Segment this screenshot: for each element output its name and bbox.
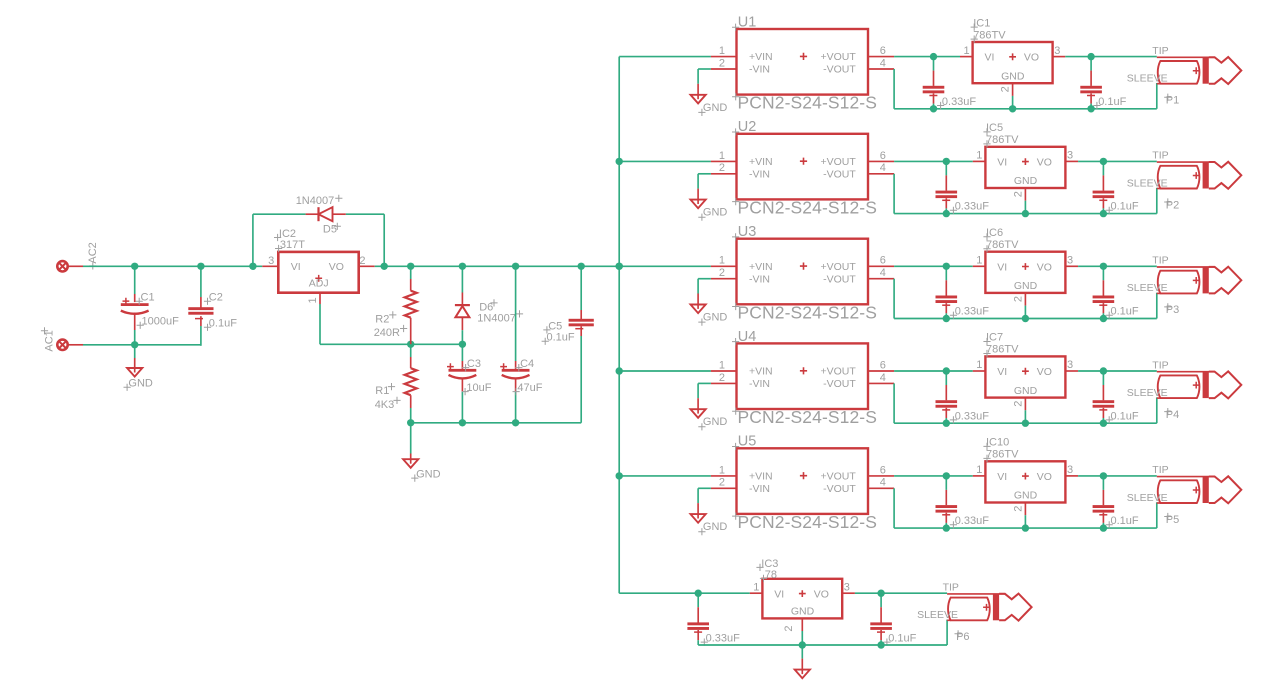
connector P6 insulator bar bbox=[993, 594, 999, 621]
svg-text:GND: GND bbox=[791, 605, 815, 617]
connector P6 SLEEVE label bbox=[917, 609, 958, 621]
junction 0.33uF bottom of U3 stage bbox=[943, 315, 950, 322]
svg-text:786TV: 786TV bbox=[973, 29, 1006, 41]
svg-text:TIP: TIP bbox=[1152, 150, 1168, 162]
IC10 pin 1 VI bbox=[973, 464, 1007, 483]
wire ground rail of IC3 stage bbox=[698, 644, 947, 646]
wire U1 -VOUT down to local rail bbox=[893, 69, 895, 109]
U2 internal plus marker bbox=[800, 158, 807, 165]
junction 0.1uF bottom of IC3 stage bbox=[877, 641, 884, 648]
capacitor 0.33uF of U2 stage bbox=[936, 161, 958, 213]
label 1N4007 of D6 bbox=[477, 310, 523, 324]
svg-text:GND: GND bbox=[703, 102, 728, 114]
junction bus to U3 bbox=[616, 263, 623, 270]
svg-text:GND: GND bbox=[703, 207, 728, 219]
ground symbol at U4 bbox=[691, 409, 706, 418]
svg-text:1: 1 bbox=[719, 359, 725, 371]
junction at C1 top bbox=[131, 263, 138, 270]
IC5 pin 3 line bbox=[1065, 150, 1078, 162]
svg-text:VI: VI bbox=[291, 261, 301, 273]
svg-text:U2: U2 bbox=[738, 119, 757, 135]
IC5 pin 2 to rail bbox=[1012, 188, 1025, 214]
wire D5 bypass loop bbox=[253, 214, 384, 266]
capacitor 0.33uF of U3 stage bbox=[936, 266, 958, 318]
capacitor 0.1uF of U3 stage bbox=[1093, 266, 1115, 318]
svg-text:VI: VI bbox=[997, 261, 1007, 273]
IC3 internal plus marker bbox=[799, 590, 806, 597]
svg-text:GND: GND bbox=[1014, 385, 1038, 397]
U2 pin 6 +VOUT bbox=[820, 150, 894, 168]
svg-text:U4: U4 bbox=[738, 329, 757, 345]
label 0.1uF of U5 stage bbox=[1106, 515, 1139, 528]
wire sleeve of P1 down to rail bbox=[1156, 83, 1158, 109]
label IC2 bbox=[274, 228, 296, 241]
connector P4 name label bbox=[1164, 408, 1179, 421]
svg-text:VI: VI bbox=[985, 52, 995, 64]
svg-text:1N4007: 1N4007 bbox=[477, 312, 516, 324]
junction +12V at 0.1uF of U5 stage bbox=[1100, 472, 1107, 479]
connector P4 SLEEVE label bbox=[1127, 387, 1168, 399]
label 240R bbox=[374, 325, 408, 339]
U1 pin 4 -VOUT bbox=[823, 57, 894, 75]
IC5 internal plus marker bbox=[1022, 158, 1029, 165]
label IC7 bbox=[983, 332, 1003, 345]
svg-text:2: 2 bbox=[359, 255, 365, 267]
svg-text:0.1uF: 0.1uF bbox=[547, 332, 575, 344]
connector P5 TIP label bbox=[1152, 464, 1168, 476]
wire AC2 net main rail left bbox=[83, 265, 262, 267]
svg-text:786TV: 786TV bbox=[986, 239, 1019, 251]
svg-text:+VOUT: +VOUT bbox=[820, 366, 856, 378]
junction 0.1uF bottom of U4 stage bbox=[1100, 420, 1107, 427]
U5 pin 6 +VOUT bbox=[820, 464, 894, 482]
IC7 pin 3 line bbox=[1065, 359, 1078, 371]
wire sleeve of P2 down to rail bbox=[1156, 188, 1158, 214]
junction 0.1uF bottom of U2 stage bbox=[1100, 210, 1107, 217]
voltage regulator IC2 box bbox=[278, 252, 358, 293]
voltage regulator IC10 box bbox=[985, 461, 1065, 502]
svg-text:SLEEVE: SLEEVE bbox=[1127, 387, 1168, 399]
IC5 VO pin name bbox=[1037, 156, 1052, 168]
connector P2 plug tip bbox=[1209, 162, 1242, 189]
dc-dc converter U4 box bbox=[737, 343, 869, 409]
svg-text:P6: P6 bbox=[956, 631, 969, 643]
connector P3 TIP label bbox=[1152, 255, 1168, 267]
svg-text:2: 2 bbox=[1012, 191, 1024, 197]
ground symbol at U1 bbox=[691, 95, 706, 104]
svg-text:D5: D5 bbox=[323, 223, 337, 235]
svg-text:GND: GND bbox=[416, 469, 441, 481]
label GND at U1 bbox=[698, 102, 727, 116]
U5 internal plus marker bbox=[800, 472, 807, 479]
label IC3 bbox=[756, 558, 778, 571]
capacitor 0.1uF of U2 stage bbox=[1093, 161, 1115, 213]
svg-text:P2: P2 bbox=[1166, 199, 1179, 211]
capacitor 0.1uF of U4 stage bbox=[1093, 371, 1115, 423]
label PCN2-S24-S12-S of U5 bbox=[732, 512, 877, 532]
label D6 bbox=[479, 299, 497, 313]
label IC6 bbox=[983, 227, 1003, 240]
svg-text:TIP: TIP bbox=[1152, 255, 1168, 267]
connector P5 insulator bar bbox=[1203, 477, 1209, 504]
ground symbol below IC3 bbox=[795, 645, 810, 678]
svg-text:0.33uF: 0.33uF bbox=[955, 410, 990, 422]
svg-text:U3: U3 bbox=[738, 224, 757, 240]
svg-text:0.33uF: 0.33uF bbox=[706, 633, 741, 645]
junction at C2 top bbox=[197, 263, 204, 270]
IC2 pin 2 VO bbox=[329, 255, 375, 273]
U3 pin 2 -VIN bbox=[711, 267, 770, 285]
voltage regulator IC6 box bbox=[985, 252, 1065, 293]
connector P4 TIP label bbox=[1152, 359, 1168, 371]
svg-text:3: 3 bbox=[1067, 464, 1073, 476]
voltage regulator IC7 box bbox=[985, 356, 1065, 397]
capacitor 0.1uF of IC3 stage bbox=[870, 593, 892, 645]
U4 pin 6 +VOUT bbox=[820, 359, 894, 377]
ground symbol at U3 bbox=[691, 305, 706, 314]
wire U2 -VIN to ground bbox=[698, 174, 711, 204]
U1 pin 1 +VIN bbox=[711, 45, 773, 63]
IC1 internal plus marker bbox=[1009, 53, 1016, 60]
junction IC3 ground on rail bbox=[799, 641, 806, 648]
svg-text:2: 2 bbox=[1000, 86, 1012, 92]
connector P5 sleeve pin stub bbox=[1157, 502, 1161, 504]
svg-text:VI: VI bbox=[997, 471, 1007, 483]
svg-text:3: 3 bbox=[1067, 359, 1073, 371]
capacitor C2 0.1uF bbox=[188, 266, 213, 326]
connector P3 barrel bbox=[1158, 271, 1200, 294]
capacitor 0.33uF of U1 stage bbox=[923, 57, 945, 109]
IC3 GND pin name bbox=[791, 605, 815, 617]
svg-text:4: 4 bbox=[880, 162, 886, 174]
label 0.1uF of C5 bbox=[542, 332, 575, 345]
svg-text:P3: P3 bbox=[1166, 304, 1179, 316]
svg-text:GND: GND bbox=[703, 312, 728, 324]
wire U5 -VIN to ground bbox=[698, 488, 711, 518]
svg-text:317T: 317T bbox=[280, 239, 305, 251]
svg-text:2: 2 bbox=[1012, 401, 1024, 407]
junction IC6 ground on rail bbox=[1022, 315, 1029, 322]
voltage regulator IC5 box bbox=[985, 147, 1065, 188]
junction bus to U5 bbox=[616, 472, 623, 479]
junction 0.1uF bottom of U5 stage bbox=[1100, 524, 1107, 531]
junction 0.1uF bottom of U1 stage bbox=[1087, 105, 1094, 112]
svg-text:0.1uF: 0.1uF bbox=[1111, 410, 1139, 422]
label C2 bbox=[204, 292, 223, 305]
junction at R2 top bbox=[407, 263, 414, 270]
svg-text:TIP: TIP bbox=[1152, 45, 1168, 57]
svg-text:-VIN: -VIN bbox=[749, 483, 770, 495]
junction at D5 right bbox=[381, 263, 388, 270]
svg-text:TIP: TIP bbox=[1152, 464, 1168, 476]
U3 pin 6 +VOUT bbox=[820, 255, 894, 273]
label 0.1uF of IC3 stage bbox=[883, 633, 916, 646]
junction at C5 top bbox=[578, 263, 585, 270]
svg-text:PCN2-S24-S12-S: PCN2-S24-S12-S bbox=[738, 197, 878, 217]
junction +12V at 0.33uF of U4 stage bbox=[943, 367, 950, 374]
svg-text:P5: P5 bbox=[1166, 514, 1179, 526]
connector P6 TIP label bbox=[943, 582, 959, 594]
connector P6 sleeve pin stub bbox=[947, 619, 951, 621]
svg-text:VO: VO bbox=[1037, 366, 1052, 378]
svg-text:IC5: IC5 bbox=[986, 122, 1003, 134]
svg-text:0.33uF: 0.33uF bbox=[955, 201, 990, 213]
wire IC10 output to jack bbox=[1078, 475, 1157, 477]
IC5 GND pin name bbox=[1014, 175, 1038, 187]
capacitor 0.1uF of U5 stage bbox=[1093, 476, 1115, 528]
IC7 VO pin name bbox=[1037, 366, 1052, 378]
label 0.1uF of U1 stage bbox=[1093, 96, 1126, 109]
label IC5 bbox=[983, 122, 1003, 135]
wire U4 -VIN to ground bbox=[698, 383, 711, 413]
wire bus to U3 pin 1 bbox=[619, 265, 711, 267]
IC3 pin 3 line bbox=[842, 581, 855, 593]
svg-text:IC1: IC1 bbox=[973, 17, 990, 29]
U5 pin 1 +VIN bbox=[711, 464, 773, 482]
junction IC7 ground on rail bbox=[1022, 420, 1029, 427]
capacitor C3 10uF bbox=[447, 344, 476, 423]
label AC1 bbox=[41, 327, 56, 351]
wire U4 -VOUT down to local rail bbox=[893, 383, 895, 423]
wire ADJ rail bbox=[320, 304, 462, 344]
connector P3 name label bbox=[1164, 303, 1179, 316]
junction at C1 bottom bbox=[131, 341, 138, 348]
U4 pin 2 -VIN bbox=[711, 372, 770, 390]
svg-text:6: 6 bbox=[880, 464, 886, 476]
U3 internal plus marker bbox=[800, 263, 807, 270]
U2 pin 2 -VIN bbox=[711, 162, 770, 180]
svg-text:-VIN: -VIN bbox=[749, 168, 770, 180]
svg-text:C3: C3 bbox=[467, 358, 481, 370]
svg-text:R1: R1 bbox=[375, 385, 389, 397]
IC1 GND pin name bbox=[1001, 70, 1025, 82]
svg-text:2: 2 bbox=[719, 57, 725, 69]
wire local ground rail of U3 stage bbox=[894, 318, 1157, 320]
label AC2 bbox=[87, 242, 99, 269]
connector P1 plug tip bbox=[1209, 57, 1242, 84]
junction 0.33uF bottom of U2 stage bbox=[943, 210, 950, 217]
label C5 bbox=[543, 320, 562, 333]
label 0.1uF of U3 stage bbox=[1106, 306, 1139, 319]
connector P2 sleeve pin stub bbox=[1157, 188, 1161, 190]
connector P2 tip pin line bbox=[1157, 161, 1215, 163]
junction IC5 ground on rail bbox=[1022, 210, 1029, 217]
junction main rail to bus bbox=[616, 263, 623, 270]
svg-text:1: 1 bbox=[307, 297, 319, 303]
connector P4 barrel bbox=[1158, 375, 1200, 398]
svg-text:240R: 240R bbox=[374, 327, 400, 339]
svg-text:+VIN: +VIN bbox=[749, 156, 773, 168]
svg-text:VO: VO bbox=[814, 588, 829, 600]
label 0.33uF of U4 stage bbox=[950, 410, 989, 423]
dc-dc converter U2 box bbox=[737, 134, 869, 200]
IC2 pin 1 ADJ stub bbox=[307, 293, 320, 304]
svg-text:IC7: IC7 bbox=[986, 332, 1003, 344]
IC10 pin 2 to rail bbox=[1012, 503, 1025, 529]
svg-text:4K3: 4K3 bbox=[375, 399, 395, 411]
svg-text:+VOUT: +VOUT bbox=[820, 261, 856, 273]
svg-text:TIP: TIP bbox=[1152, 359, 1168, 371]
IC7 pin 1 VI bbox=[973, 359, 1007, 378]
svg-text:R2: R2 bbox=[375, 313, 389, 325]
label U3 bbox=[732, 224, 756, 240]
svg-text:3: 3 bbox=[1054, 45, 1060, 57]
terminal AC1 bbox=[57, 340, 67, 350]
label 786TV of IC7 bbox=[983, 344, 1019, 357]
capacitor 0.1uF of U1 stage bbox=[1080, 57, 1102, 109]
label 0.33uF of U5 stage bbox=[950, 515, 989, 528]
svg-text:VI: VI bbox=[997, 366, 1007, 378]
IC1 VO pin name bbox=[1024, 52, 1039, 64]
label 0.1uF of U2 stage bbox=[1106, 201, 1139, 214]
svg-text:+VIN: +VIN bbox=[749, 471, 773, 483]
label 317T bbox=[275, 239, 305, 252]
svg-text:PCN2-S24-S12-S: PCN2-S24-S12-S bbox=[738, 407, 878, 427]
svg-text:-VIN: -VIN bbox=[749, 378, 770, 390]
voltage regulator IC3 box bbox=[762, 579, 842, 619]
connector P4 sleeve pin stub bbox=[1157, 397, 1161, 399]
label GND at U5 bbox=[698, 521, 727, 535]
svg-text:-VOUT: -VOUT bbox=[823, 64, 856, 76]
svg-text:GND: GND bbox=[703, 521, 728, 533]
svg-text:2: 2 bbox=[719, 477, 725, 489]
wire sleeve of P4 down to rail bbox=[1156, 397, 1158, 423]
connector P3 insulator bar bbox=[1203, 267, 1209, 294]
junction ADJ-D6-C3 bbox=[459, 341, 466, 348]
junction bus to U2 bbox=[616, 158, 623, 165]
wire IC3 output to jack P6 bbox=[855, 592, 947, 594]
resistor R1 4K3 bbox=[405, 344, 417, 423]
junction +12V at 0.1uF of U1 stage bbox=[1087, 53, 1094, 60]
svg-text:P4: P4 bbox=[1166, 409, 1179, 421]
svg-text:-VOUT: -VOUT bbox=[823, 168, 856, 180]
label 10uF bbox=[462, 382, 492, 395]
svg-text:IC10: IC10 bbox=[986, 437, 1009, 449]
label R1 bbox=[375, 383, 395, 397]
svg-text:47uF: 47uF bbox=[517, 382, 542, 394]
connector P1 SLEEVE label bbox=[1127, 73, 1168, 85]
svg-text:VO: VO bbox=[1037, 471, 1052, 483]
IC3 pin 2 to rail bbox=[783, 618, 803, 645]
terminal AC2 pin stub bbox=[68, 265, 83, 267]
label GND below C1 bbox=[124, 378, 153, 391]
terminal AC2 bbox=[57, 261, 67, 271]
U3 pin 1 +VIN bbox=[711, 255, 773, 273]
label GND at U4 bbox=[698, 416, 727, 430]
label C4 bbox=[515, 358, 534, 371]
svg-text:SLEEVE: SLEEVE bbox=[1127, 282, 1168, 294]
svg-text:1: 1 bbox=[976, 150, 982, 162]
IC10 internal plus marker bbox=[1022, 473, 1029, 480]
U4 internal plus marker bbox=[800, 367, 807, 374]
wire U1 +VOUT to IC1 input bbox=[894, 56, 960, 58]
dc-dc converter U1 box bbox=[737, 29, 869, 95]
wire VO to bus bbox=[375, 265, 620, 267]
connector P1 name label bbox=[1164, 94, 1179, 107]
svg-text:1: 1 bbox=[753, 581, 759, 593]
svg-text:PCN2-S24-S12-S: PCN2-S24-S12-S bbox=[738, 512, 878, 532]
label 786TV of IC1 bbox=[971, 29, 1007, 42]
svg-text:TIP: TIP bbox=[943, 582, 959, 594]
label PCN2-S24-S12-S of U1 bbox=[732, 93, 877, 113]
dc-dc converter U3 box bbox=[737, 239, 869, 305]
connector P6 name label bbox=[955, 630, 970, 643]
label U5 bbox=[732, 434, 756, 450]
wire U3 -VIN to ground bbox=[698, 279, 711, 309]
svg-text:1: 1 bbox=[719, 255, 725, 267]
capacitor C5 0.1uF bbox=[569, 266, 594, 423]
svg-text:2: 2 bbox=[719, 372, 725, 384]
svg-text:GND: GND bbox=[1001, 70, 1025, 82]
connector P1 TIP label bbox=[1152, 45, 1168, 57]
svg-text:-VIN: -VIN bbox=[749, 64, 770, 76]
svg-text:786TV: 786TV bbox=[986, 134, 1019, 146]
wire U5 +VOUT to IC10 input bbox=[894, 475, 973, 477]
U4 pin 1 +VIN bbox=[711, 359, 773, 377]
connector P5 tip pin line bbox=[1157, 476, 1215, 478]
svg-text:1: 1 bbox=[976, 464, 982, 476]
IC10 pin 3 line bbox=[1065, 464, 1078, 476]
svg-text:0.1uF: 0.1uF bbox=[1111, 515, 1139, 527]
IC1 pin 3 line bbox=[1053, 45, 1066, 57]
wire local ground rail of U4 stage bbox=[894, 422, 1157, 424]
svg-text:SLEEVE: SLEEVE bbox=[1127, 177, 1168, 189]
terminal AC1 pin stub bbox=[68, 344, 83, 346]
junction at D5 branch bbox=[249, 263, 256, 270]
svg-text:1: 1 bbox=[976, 359, 982, 371]
wire U2 +VOUT to IC5 input bbox=[894, 160, 973, 162]
svg-text:2: 2 bbox=[1012, 506, 1024, 512]
svg-text:1: 1 bbox=[976, 255, 982, 267]
svg-text:AC1: AC1 bbox=[44, 330, 56, 351]
svg-text:786TV: 786TV bbox=[986, 449, 1019, 461]
connector P4 tip pin line bbox=[1157, 371, 1215, 373]
wire U3 +VOUT to IC6 input bbox=[894, 265, 973, 267]
capacitor 0.33uF of U5 stage bbox=[936, 476, 958, 528]
junction +9V at 0.1uF of IC3 stage bbox=[877, 590, 884, 597]
svg-text:SLEEVE: SLEEVE bbox=[917, 609, 958, 621]
label 786TV of IC6 bbox=[983, 239, 1019, 252]
svg-text:0.1uF: 0.1uF bbox=[888, 633, 916, 645]
label 0.1uF bbox=[204, 318, 237, 331]
svg-text:GND: GND bbox=[128, 378, 153, 390]
IC5 pin 1 VI bbox=[973, 150, 1007, 169]
svg-text:0.1uF: 0.1uF bbox=[1111, 201, 1139, 213]
ground symbol below R1 bbox=[403, 423, 418, 468]
svg-text:1000uF: 1000uF bbox=[142, 316, 180, 328]
label GND below R1 bbox=[411, 469, 440, 482]
ground symbol at U2 bbox=[691, 200, 706, 209]
label U2 bbox=[732, 119, 756, 135]
junction +12V at 0.33uF of U2 stage bbox=[943, 158, 950, 165]
IC1 pin 1 VI bbox=[960, 45, 994, 64]
label 0.33uF of IC3 stage bbox=[701, 633, 740, 646]
IC3 VO pin name bbox=[814, 588, 829, 600]
connector P1 insulator bar bbox=[1203, 57, 1209, 83]
junction 0.1uF bottom of U3 stage bbox=[1100, 315, 1107, 322]
diode D6 1N4007 bbox=[455, 266, 470, 344]
U3 pin 4 -VOUT bbox=[823, 267, 894, 285]
junction +12V at 0.1uF of U4 stage bbox=[1100, 367, 1107, 374]
wire bus to U5 pin 1 bbox=[619, 475, 711, 477]
connector P2 TIP label bbox=[1152, 150, 1168, 162]
label 0.33uF of U1 stage bbox=[937, 96, 976, 109]
svg-text:VO: VO bbox=[1037, 156, 1052, 168]
svg-text:C5: C5 bbox=[548, 320, 562, 332]
IC6 pin 1 VI bbox=[973, 255, 1007, 274]
capacitor C4 47uF bbox=[500, 266, 529, 423]
IC7 GND pin name bbox=[1014, 385, 1038, 397]
